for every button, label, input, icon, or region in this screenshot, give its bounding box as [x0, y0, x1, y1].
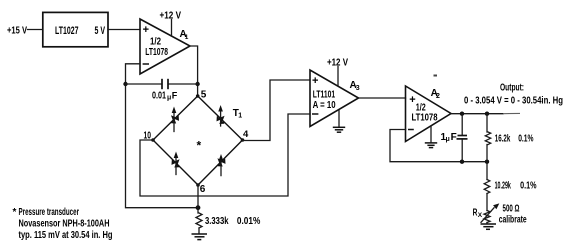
bridge element bottom-right — [218, 159, 225, 166]
junction inverting input / cap — [123, 82, 127, 86]
junction feedback / 1uF — [460, 160, 464, 164]
node 4 — [241, 138, 245, 142]
resistor 3.333k — [196, 213, 202, 228]
svg-text:F: F — [451, 132, 457, 143]
capacitor 0.01 uF (feedback) — [126, 83, 162, 85]
wire A2 output — [451, 113, 503, 115]
svg-text:4: 4 — [243, 129, 249, 140]
scan speck above A2 — [434, 75, 438, 77]
junction output / 16.2k — [485, 112, 489, 116]
svg-text:calibrate: calibrate — [499, 215, 527, 226]
instrumentation amp A3 LT1101 — [310, 70, 359, 127]
svg-text:*: * — [197, 139, 202, 153]
svg-text:+: + — [312, 75, 318, 87]
svg-text:0.01: 0.01 — [152, 90, 166, 101]
svg-text:A = 10: A = 10 — [313, 100, 336, 111]
svg-text:16.2k: 16.2k — [495, 134, 511, 145]
svg-text:LT1101: LT1101 — [313, 89, 336, 100]
wire node 10 to A3 inverting input — [140, 114, 310, 196]
svg-text:1/2: 1/2 — [150, 37, 161, 48]
svg-text:0.1%: 0.1% — [520, 181, 536, 192]
svg-text:Pressure transducer: Pressure transducer — [19, 207, 80, 218]
wire node 4 to A3 noninverting input — [243, 80, 311, 141]
ground of A2 — [430, 126, 432, 143]
wire A2 inverting input feedback loop — [390, 130, 487, 162]
svg-text:+15 V: +15 V — [7, 26, 27, 37]
svg-text:1: 1 — [185, 34, 189, 41]
bridge element top-right — [218, 116, 225, 123]
node 6 — [196, 183, 200, 187]
ground under RX — [481, 223, 497, 225]
ground of A3 — [338, 111, 340, 128]
svg-text:LT1078: LT1078 — [145, 47, 168, 58]
svg-text:0.01%: 0.01% — [237, 216, 260, 227]
wire LT1027 output to A1 noninverting input — [108, 29, 140, 31]
svg-text:+: + — [409, 94, 415, 106]
ground under 3.333k — [192, 233, 208, 235]
junction node6 / 3.333k / A1 inverting — [196, 205, 201, 210]
resistor 16.2k — [486, 114, 488, 132]
svg-text:10.29k: 10.29k — [495, 181, 512, 192]
svg-text:Output:: Output: — [500, 82, 524, 93]
node 5 — [196, 94, 200, 98]
svg-text:500 Ω: 500 Ω — [503, 203, 520, 214]
svg-text:F: F — [172, 90, 178, 100]
junction output / 1uF — [460, 112, 464, 116]
junction feedback / divider — [485, 160, 489, 164]
trimmer resistor RX 500 ohm — [484, 211, 490, 223]
wire A3 output to A2 noninverting input — [359, 97, 406, 99]
svg-text:μ: μ — [446, 136, 450, 143]
op-amp A1 1/2 LT1078 — [140, 19, 190, 74]
svg-text:2: 2 — [436, 93, 440, 100]
svg-text:1: 1 — [238, 113, 242, 120]
wire A1 output to bridge node 5 — [190, 46, 198, 96]
wire +15V to LT1027 — [28, 29, 43, 31]
svg-text:3: 3 — [356, 85, 360, 92]
bridge element top-left — [171, 116, 178, 123]
svg-text:6: 6 — [200, 184, 206, 195]
faint scan smudge at output end — [503, 112, 520, 114]
wire RX to ground — [486, 223, 488, 224]
svg-text:0 - 3.054 V = 0 - 30.54in. Hg: 0 - 3.054 V = 0 - 30.54in. Hg — [464, 95, 563, 106]
svg-text:μ: μ — [167, 94, 171, 101]
capacitor 1uF — [461, 114, 463, 136]
svg-text:+: + — [143, 24, 149, 36]
node 10 — [151, 138, 155, 142]
svg-text:0.1%: 0.1% — [518, 134, 533, 145]
svg-text:LT1078: LT1078 — [412, 113, 438, 124]
svg-text:Novasensor NPH-8-100AH: Novasensor NPH-8-100AH — [19, 219, 110, 230]
bridge element bottom-left — [173, 160, 180, 167]
svg-text:typ. 115 mV at 30.54 in. Hg: typ. 115 mV at 30.54 in. Hg — [19, 230, 113, 241]
junction A1 output / feedback cap — [195, 82, 199, 86]
op-amp A2 1/2 LT1078 — [406, 86, 452, 142]
voltage reference LT1027 box — [43, 12, 108, 46]
svg-text:X: X — [478, 212, 483, 219]
wire resistor to ground — [198, 228, 200, 234]
wire A1 inverting input to feedback node — [126, 64, 198, 208]
svg-text:5 V: 5 V — [95, 25, 106, 37]
svg-text:3.333k: 3.333k — [205, 216, 229, 227]
svg-text:*: * — [13, 207, 17, 218]
svg-text:5: 5 — [201, 90, 207, 101]
pressure transducer bridge T1 — [153, 96, 243, 185]
svg-text:+12 V: +12 V — [160, 10, 182, 21]
wire node 6 down — [197, 185, 199, 213]
resistor 10.29k — [484, 180, 490, 194]
svg-text:LT1027: LT1027 — [55, 25, 79, 37]
